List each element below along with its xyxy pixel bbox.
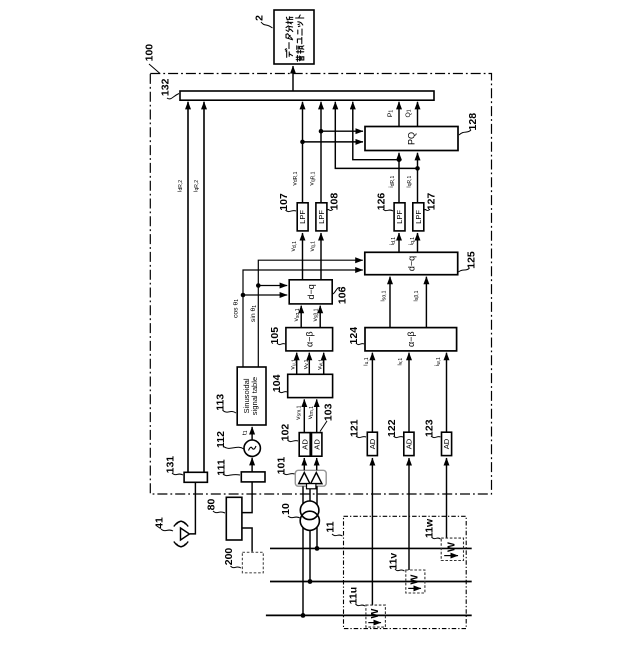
external unit 200 (dashed box) [242, 552, 263, 573]
label 104 [271, 374, 287, 392]
label i_v,1 [396, 358, 404, 366]
wire i_dR,1 (LPF126 to PQ, branch to bus) [353, 102, 402, 203]
wire sensor 11w to AD 123 [446, 458, 448, 538]
label P1 [387, 110, 395, 118]
svg-text:idR,1: idR,1 [388, 175, 396, 187]
svg-text:W: W [369, 608, 381, 618]
svg-text:108: 108 [328, 193, 340, 211]
d-q 106 [289, 280, 332, 304]
line2 char ユ [297, 37, 301, 43]
svg-text:vqR,1: vqR,1 [309, 171, 317, 185]
wire 131 to antenna [190, 482, 195, 534]
svg-text:124: 124 [348, 327, 360, 345]
svg-text:PQ: PQ [407, 132, 417, 145]
wire AD102 to 104 [303, 399, 305, 432]
transformer primary wire to phase R [315, 486, 320, 551]
label v_tm,1 [307, 406, 315, 419]
svg-text:LPF: LPF [395, 210, 404, 224]
label i_u,1 [362, 357, 370, 366]
label 80 [206, 499, 225, 513]
label 106 [333, 286, 348, 304]
AD 122 [404, 432, 414, 455]
current sensor 11v [406, 570, 425, 593]
wire 112 to 113 (t1) [251, 427, 253, 440]
svg-text:200: 200 [223, 548, 235, 566]
svg-text:P1: P1 [387, 110, 395, 118]
AD 102 [299, 433, 310, 457]
bus 132 [180, 91, 434, 100]
line1 char 析 [286, 17, 293, 24]
LPF 108 [316, 203, 327, 231]
svg-text:isα,1: isα,1 [380, 290, 388, 301]
label 128 [459, 113, 479, 135]
svg-text:LPF: LPF [414, 210, 423, 224]
svg-text:vsβ,1: vsβ,1 [312, 308, 320, 321]
svg-text:d−q: d−q [306, 284, 316, 299]
svg-text:2: 2 [253, 15, 265, 21]
wire v_d,1 (106 to LPF 107) [302, 233, 304, 280]
svg-text:vsm,1: vsm,1 [295, 405, 303, 419]
svg-text:126: 126 [375, 193, 387, 211]
label i_w,1 [434, 357, 442, 366]
label t1 [241, 430, 249, 435]
label 11u [348, 587, 365, 606]
svg-text:80: 80 [206, 499, 218, 511]
label v_w,1 [317, 359, 325, 370]
label 111 [215, 459, 240, 476]
label v_u,1 [290, 359, 298, 370]
label 131 [164, 456, 183, 475]
label v_q,1 [309, 241, 317, 252]
label 123 [423, 419, 440, 437]
svg-text:11: 11 [324, 521, 336, 532]
label v_sα,1 [293, 308, 301, 321]
comm unit 80 [226, 497, 242, 540]
label i_sβ,1 [412, 290, 420, 301]
svg-text:cos θ1: cos θ1 [232, 299, 240, 318]
AD 121 [367, 432, 377, 455]
wire v_sβ,1 (105 to 106) [319, 306, 321, 328]
svg-text:11u: 11u [348, 587, 360, 605]
svg-text:127: 127 [425, 193, 437, 211]
data analysis unit 2 (box) [274, 10, 314, 64]
label 127 [425, 193, 438, 211]
label 103 [320, 403, 334, 431]
receiver 131 [184, 472, 207, 482]
svg-text:vd,1: vd,1 [290, 241, 298, 252]
PQ 128 [365, 127, 458, 151]
label sin θ1 [250, 305, 258, 322]
line2 char ッ [298, 22, 303, 27]
label i_dR,2 [176, 180, 184, 192]
svg-text:113: 113 [214, 394, 226, 411]
oscillator 112 [244, 440, 260, 456]
wire i_qR,1 (LPF127 to PQ, branch to bus) [335, 102, 420, 203]
label 121 [348, 419, 366, 437]
wire v_dR,1 (LPF107 to bus, branch to PQ) [300, 102, 363, 203]
label 2 [253, 15, 272, 28]
svg-text:iv,1: iv,1 [396, 358, 404, 366]
wire i_u,1 (AD121 to 124) [371, 353, 373, 433]
power phase line T [266, 614, 472, 616]
AD 103 [312, 433, 322, 457]
wire bus to unit 2 [292, 66, 294, 91]
svg-text:id,1: id,1 [389, 237, 397, 246]
label 125 [459, 251, 478, 272]
wire v_v,1 (104 to 105) [308, 353, 310, 375]
svg-text:103: 103 [322, 403, 334, 421]
svg-text:iqR,2: iqR,2 [192, 180, 200, 192]
label i_q,1 [408, 237, 416, 246]
svg-text:AD: AD [368, 438, 377, 449]
wire 101 to AD 103 [316, 458, 318, 470]
svg-text:Q1: Q1 [405, 109, 413, 117]
label v_sβ,1 [312, 308, 320, 321]
current sensor 11u [366, 605, 386, 627]
svg-text:AD: AD [405, 438, 414, 449]
svg-text:112: 112 [215, 431, 227, 448]
svg-text:111: 111 [215, 459, 227, 476]
svg-text:vv,1: vv,1 [302, 359, 310, 369]
svg-text:t1: t1 [241, 430, 249, 435]
label 108 [328, 193, 341, 211]
wire v_q,1 (106 to LPF 108) [320, 233, 322, 280]
svg-text:signal table: signal table [250, 377, 259, 415]
label i_qR,2 [192, 180, 200, 192]
svg-text:LPF: LPF [298, 210, 307, 224]
d-q 125 [365, 252, 458, 274]
wire v_sα,1 (105 to 106) [300, 306, 302, 328]
label 11 [324, 521, 342, 536]
sinusoidal signal table 113 [237, 367, 266, 425]
label 11w [424, 518, 441, 539]
label 122 [386, 419, 403, 437]
wire 80 to 200 [243, 528, 253, 552]
wire i_w,1 (AD123 to 124) [446, 353, 448, 433]
load unit 11 (dashed box) [344, 516, 467, 628]
current sensor 11w [441, 538, 463, 560]
svg-text:vu,1: vu,1 [290, 359, 298, 370]
line2 char ト [296, 15, 304, 18]
svg-text:11w: 11w [424, 518, 436, 538]
svg-text:iq,1: iq,1 [408, 237, 416, 246]
svg-text:AD: AD [442, 438, 451, 449]
line1 char デ [285, 49, 292, 58]
svg-text:131: 131 [164, 456, 176, 474]
label 126 [375, 193, 393, 211]
wire AD103 to 104 [316, 399, 318, 432]
wire sin θ1 (113 to d-q 125 and d-q 106) [256, 260, 363, 367]
transformer primary wire to phase S [308, 489, 313, 584]
label 102 [280, 424, 298, 442]
svg-text:iqR,1: iqR,1 [405, 175, 413, 187]
label 41 [153, 517, 173, 531]
label 10 [280, 503, 300, 518]
svg-text:vq,1: vq,1 [309, 241, 317, 252]
label 107 [278, 193, 296, 212]
transformer 10 [300, 501, 319, 530]
svg-text:vw,1: vw,1 [317, 359, 325, 370]
svg-text:vtm,1: vtm,1 [307, 406, 315, 419]
line1 char タ [286, 34, 293, 40]
wire P1 (PQ to bus) [398, 102, 400, 127]
power phase line R [270, 547, 472, 549]
unit 2 text (data analysis storage unit, stroke-drawn CJK) [285, 15, 304, 61]
label v_d,1 [290, 241, 298, 252]
label 124 [348, 327, 364, 345]
svg-text:41: 41 [153, 517, 165, 529]
line1 char 分 [286, 26, 293, 32]
wire Q1 (PQ to bus) [417, 102, 419, 127]
svg-text:iu,1: iu,1 [362, 357, 370, 366]
svg-text:α−β: α−β [304, 331, 314, 347]
wire i_q,1 (125 to LPF127) [417, 233, 419, 252]
svg-text:10: 10 [280, 503, 292, 515]
wire i_sα,1 (124 to 125) [389, 277, 391, 328]
svg-text:AD: AD [300, 439, 309, 450]
svg-text:sin θ1: sin θ1 [250, 305, 258, 322]
svg-text:vsα,1: vsα,1 [293, 308, 301, 321]
svg-text:iw,1: iw,1 [434, 357, 442, 366]
svg-text:105: 105 [269, 327, 281, 345]
transformer primary wire to phase T [301, 486, 306, 618]
wire cos θ1 (113 to d-q 125 and d-q 106) [241, 270, 363, 367]
unit frame 100 (dash-dot boundary) [150, 74, 491, 495]
svg-text:107: 107 [278, 193, 290, 211]
line2 char 蓄 [296, 55, 304, 61]
wire v_w,1 (104 to 105) [323, 353, 325, 375]
svg-text:106: 106 [336, 286, 348, 304]
svg-text:100: 100 [144, 44, 156, 62]
label cos θ1 [232, 299, 240, 318]
line1 char ー [288, 43, 290, 49]
line2 char 積 [296, 46, 303, 53]
voltage sensor 101 [295, 470, 326, 489]
wire i_d,1 (125 to LPF126) [398, 233, 400, 252]
wire v_u,1 (104 to 105) [296, 353, 298, 375]
svg-text:121: 121 [348, 419, 360, 437]
label v_dR,1 [291, 171, 299, 185]
wire sensor 11v to AD 122 [408, 458, 410, 570]
label 132 [159, 78, 179, 99]
line2 char ニ [298, 29, 302, 35]
wire 101 to AD 102 [303, 458, 305, 470]
svg-text:125: 125 [465, 251, 477, 269]
wire i_v,1 (AD122 to 124) [408, 353, 410, 433]
svg-text:isβ,1: isβ,1 [412, 290, 420, 301]
svg-text:123: 123 [423, 419, 435, 437]
clock unit 111 [241, 472, 265, 482]
wire i_sβ,1 (124 to 125) [425, 277, 427, 328]
wire 111 to 80 [243, 482, 253, 513]
label 112 [215, 431, 244, 449]
svg-text:α−β: α−β [406, 331, 416, 347]
svg-text:W: W [446, 542, 458, 552]
svg-text:132: 132 [159, 78, 171, 96]
wire i_dR,2 (131 to bus) [187, 102, 189, 473]
svg-text:W: W [409, 574, 421, 584]
label v_sm,1 [295, 405, 303, 419]
wire v_qR,1 (LPF108 to bus, branch to PQ) [319, 102, 363, 203]
svg-text:128: 128 [467, 113, 479, 131]
antenna 41 [174, 521, 190, 547]
label 113 [214, 394, 236, 413]
alpha-beta 105 [286, 328, 333, 351]
svg-text:11v: 11v [387, 553, 399, 570]
wire i_qR,2 (131 to bus) [203, 102, 205, 473]
label i_dR,1 [388, 175, 396, 187]
label i_qR,1 [405, 175, 413, 187]
AD 123 [442, 432, 452, 455]
svg-text:102: 102 [280, 424, 292, 442]
svg-text:idR,2: idR,2 [176, 180, 184, 192]
LPF 126 [394, 203, 405, 231]
label i_d,1 [389, 237, 397, 246]
svg-text:122: 122 [386, 419, 398, 437]
label 200 [223, 548, 241, 568]
label i_sα,1 [380, 290, 388, 301]
phase voltage calc 104 [288, 374, 333, 397]
power phase line S [270, 581, 472, 583]
LPF 127 [413, 203, 424, 231]
label 100 [144, 44, 160, 74]
svg-text:104: 104 [271, 374, 283, 392]
label 101 [275, 457, 294, 475]
svg-text:vdR,1: vdR,1 [291, 171, 299, 185]
label 105 [269, 327, 285, 345]
svg-text:d−q: d−q [406, 256, 416, 271]
label Q1 [405, 109, 413, 117]
label v_qR,1 [309, 171, 317, 185]
label v_v,1 [302, 359, 310, 369]
wire sensor 11u to AD 121 [371, 458, 373, 605]
label 11v [387, 553, 404, 571]
svg-text:101: 101 [275, 457, 287, 475]
svg-text:LPF: LPF [317, 210, 326, 224]
LPF 107 [297, 203, 308, 231]
alpha-beta 124 [365, 328, 457, 351]
svg-text:AD: AD [312, 439, 321, 450]
wire 111 to 112 [251, 458, 253, 472]
